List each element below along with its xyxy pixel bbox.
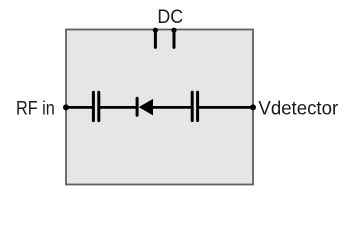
- diode D1 (cathode bar + triangle pointing left): [137, 98, 153, 115]
- svg-text:RF in: RF in: [16, 98, 55, 120]
- node RF in (junction dot): [63, 104, 69, 110]
- wire: D1 to C2: [153, 106, 192, 109]
- wire: C2 to Vdetector node: [198, 106, 253, 109]
- capacitor C1: [93, 92, 98, 120]
- node Vdetector (junction dot): [250, 104, 256, 110]
- DC terminal pin 1: [153, 28, 158, 48]
- DC terminal pin 2: [171, 28, 176, 48]
- svg-text:Vdetector: Vdetector: [258, 98, 338, 120]
- wire: C1 to diode D1: [99, 106, 138, 109]
- svg-text:DC: DC: [157, 6, 183, 28]
- detector module body: [66, 30, 253, 185]
- capacitor C2: [192, 92, 197, 120]
- wire: RF in node to C1: [66, 106, 93, 109]
